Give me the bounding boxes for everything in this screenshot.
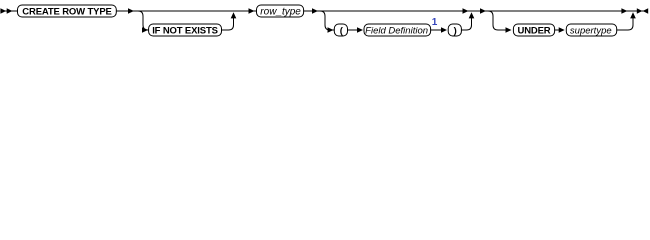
end symbol arrow pair [637,8,643,14]
arrowhead into IF NOT EXISTS [142,27,148,33]
wire ) exit and up [461,17,471,30]
svg-text:supertype: supertype [570,25,612,36]
wire supertype exit and up [617,17,633,30]
arrowhead on main line before end [621,8,627,14]
literal box ) [448,24,461,36]
wire lower line before UNDER [498,29,507,31]
literal box ( [334,24,347,36]
start symbol double arrowheads [0,8,6,14]
arrowhead into ) [441,27,447,33]
svg-text:IF NOT EXISTS: IF NOT EXISTS [152,25,218,36]
keyword box CREATE ROW TYPE [18,5,117,17]
wire between Field Definition and ) [431,29,442,31]
wire main line row_type to end [304,10,648,12]
arrowhead before row_type [249,8,255,14]
arrowhead into ( [328,27,334,33]
svg-text:row_type: row_type [260,7,301,18]
wire lower line IF NOT EXISTS entry [148,29,149,31]
wire main line left segment [0,10,17,12]
arrowhead after CREATE ROW TYPE [128,8,134,14]
arrowhead up rejoin after supertype [630,12,636,18]
svg-text:CREATE ROW TYPE: CREATE ROW TYPE [22,6,111,17]
svg-text:): ) [454,25,457,36]
arrowhead up rejoin after IF NOT EXISTS [231,12,237,18]
wire IF NOT EXISTS exit and up [222,17,234,30]
svg-text:UNDER: UNDER [517,25,550,36]
keyword box IF NOT EXISTS [149,24,222,36]
wire lower line before ( [330,29,334,31]
wire between ( and Field Definition [348,29,359,31]
arrowhead into supertype [559,27,565,33]
arrowhead on main line after paren rejoin [480,8,486,14]
arrowhead into Field Definition [357,27,363,33]
keyword box UNDER [513,24,554,36]
svg-text:Field Definition: Field Definition [365,25,428,36]
arrowhead on main line before paren rejoin [463,8,469,14]
wire main line CREATE to row_type [116,10,256,12]
arrowhead up rejoin after ) [469,12,475,18]
arrowhead after row_type [312,8,318,14]
variable box row_type [257,5,304,18]
wire branch down to IF NOT EXISTS [138,11,148,30]
wire branch down to UNDER [488,11,498,30]
wire branch down to paren group [320,11,330,30]
variable box Field Definition [364,24,431,36]
svg-text:1: 1 [432,17,438,28]
arrowhead into UNDER [506,27,512,33]
wire between UNDER and supertype [555,29,560,31]
variable box supertype [566,24,616,36]
